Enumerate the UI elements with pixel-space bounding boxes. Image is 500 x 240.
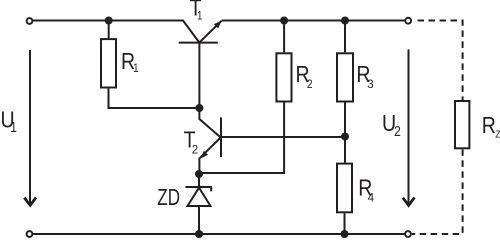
svg-text:1: 1 <box>133 63 139 76</box>
svg-text:1: 1 <box>197 10 202 23</box>
svg-text:4: 4 <box>368 191 375 204</box>
svg-text:3: 3 <box>367 78 373 91</box>
svg-text:2: 2 <box>192 145 198 157</box>
svg-text:2: 2 <box>394 123 401 140</box>
svg-text:2: 2 <box>307 78 313 91</box>
svg-text:Z: Z <box>495 129 500 141</box>
svg-text:ZD: ZD <box>157 186 180 211</box>
svg-text:R: R <box>482 113 496 139</box>
svg-text:1: 1 <box>10 119 17 136</box>
